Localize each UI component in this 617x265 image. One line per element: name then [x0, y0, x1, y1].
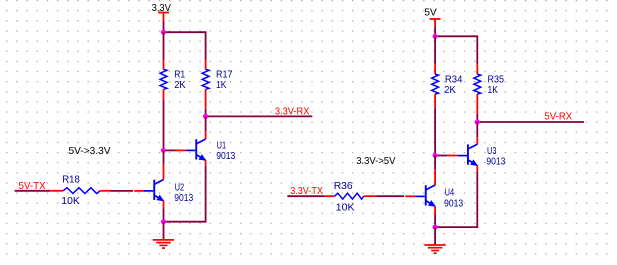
- resistor R34: [432, 64, 439, 108]
- svg-text:R18: R18: [62, 174, 80, 186]
- node junction RX: [203, 114, 208, 119]
- wire R18 to U2 base: [111, 190, 144, 192]
- wire U2 emitter down: [163, 201, 165, 222]
- wire to U1 collector: [205, 116, 207, 139]
- svg-text:3.3V->5V: 3.3V->5V: [356, 155, 395, 167]
- wire 3.3V stem: [163, 22, 165, 33]
- node junction emitter left: [161, 219, 166, 224]
- transistor U2: [144, 180, 164, 201]
- svg-text:5V: 5V: [424, 7, 437, 19]
- wire U3 base: [435, 155, 458, 157]
- wire top rail right: [435, 36, 477, 64]
- ground left: [153, 240, 174, 248]
- wire 3.3V-TX input: [287, 195, 324, 197]
- svg-text:10K: 10K: [61, 195, 80, 207]
- svg-text:2K: 2K: [174, 79, 186, 91]
- resistor R36: [325, 193, 377, 199]
- ground right: [424, 245, 445, 253]
- wire R35 bottom: [476, 114, 478, 122]
- wire J2b to U4 collector: [434, 155, 436, 185]
- node junction J1b: [433, 34, 438, 39]
- wire U3 emitter down: [435, 166, 477, 228]
- svg-text:R36: R36: [334, 180, 353, 192]
- svg-text:9013: 9013: [216, 150, 235, 162]
- wire R17 bottom: [205, 109, 207, 117]
- resistor R18: [50, 188, 110, 194]
- wire to U3 collector: [476, 122, 478, 144]
- svg-text:5V->3.3V: 5V->3.3V: [69, 145, 111, 157]
- node junction J2: [161, 148, 166, 153]
- svg-text:1K: 1K: [216, 79, 227, 91]
- wire U1 emitter down: [164, 160, 206, 221]
- svg-text:9013: 9013: [444, 197, 463, 209]
- transistor U4: [415, 185, 435, 206]
- wire R36 to U4 base: [376, 195, 415, 197]
- svg-text:3.3V-RX: 3.3V-RX: [275, 105, 310, 117]
- resistor R35: [474, 64, 481, 114]
- wire R34 bottom to base junction: [434, 108, 436, 155]
- power 3.3V: [152, 2, 171, 22]
- power 5V: [424, 7, 440, 28]
- wire R1 bottom to base junction: [163, 100, 165, 150]
- wire J2 to U2 collector: [163, 150, 165, 179]
- net 3.3V-RX wire: [206, 115, 313, 117]
- node junction J2b: [433, 153, 438, 158]
- wire R34 top: [434, 36, 436, 64]
- wire top rail left: [164, 32, 206, 60]
- transistor U1: [186, 139, 206, 160]
- node junction J1: [161, 30, 166, 35]
- svg-text:2K: 2K: [444, 84, 456, 96]
- wire to ground right: [434, 227, 436, 244]
- svg-text:10K: 10K: [336, 202, 355, 214]
- transistor U3: [458, 144, 478, 165]
- wire R1 top: [163, 32, 165, 60]
- wire to ground left: [163, 222, 165, 240]
- wire 5V-TX input: [15, 190, 51, 192]
- resistor R17: [202, 59, 209, 109]
- wire U1 base: [164, 149, 186, 151]
- wire U4 emitter down: [434, 206, 436, 227]
- svg-text:9013: 9013: [486, 155, 505, 167]
- svg-text:3.3V-TX: 3.3V-TX: [290, 185, 323, 197]
- svg-text:9013: 9013: [174, 192, 193, 204]
- resistor R1: [160, 59, 167, 100]
- net 5V-RX wire: [477, 121, 584, 123]
- wire 5V stem: [434, 28, 436, 37]
- svg-text:1K: 1K: [488, 84, 499, 96]
- svg-text:5V-RX: 5V-RX: [544, 111, 572, 123]
- node junction RXb: [475, 119, 480, 124]
- node junction emitter right: [433, 225, 438, 230]
